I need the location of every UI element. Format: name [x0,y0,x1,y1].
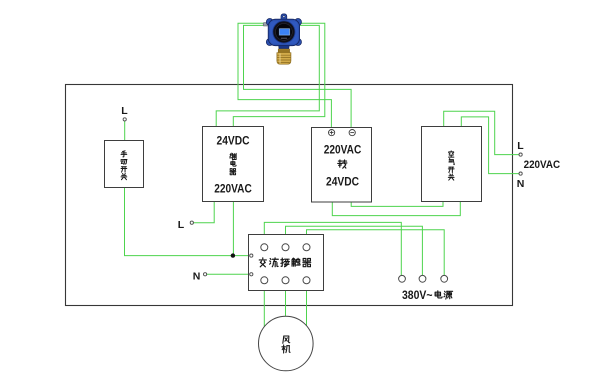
junction dot [231,253,235,257]
380V power terminal 2 [419,275,426,282]
plus terminal [329,130,335,136]
svg-text:24VDC: 24VDC [326,175,359,189]
detector mounting ear [281,14,287,20]
terminal N mid [204,273,207,276]
svg-text:L: L [178,219,185,231]
detector corner bosses [266,19,273,26]
svg-text:L: L [121,105,128,117]
converter box [312,128,372,203]
wire: detector left lower to converter minus terminal [244,25,352,129]
wire: detector left upper to converter plus terminal [238,23,331,129]
wire: air switch top-right to mains N terminal [461,117,519,174]
label 转 [338,160,347,168]
detector neck [279,46,290,49]
wire: converter bottom-left to air switch bottom-right [332,202,460,216]
detector bezel [272,20,295,43]
minus terminal [349,130,355,136]
wire: detector right upper to relay top-right terminal [233,23,324,126]
wire: contactor bottom 3 to fan [306,284,308,326]
detector body [268,19,299,46]
contactor box [249,235,324,291]
svg-text:N: N [193,271,201,283]
svg-text:220VAC: 220VAC [324,142,362,156]
wire: contactor top 3 to 380V terminal 3 [307,230,445,276]
svg-text:220VAC: 220VAC [524,159,561,171]
label 继电器 (rotated) [230,153,236,175]
label 风机 [282,336,290,353]
svg-text:24VDC: 24VDC [217,133,250,147]
wire: relay bottom-left to L terminal [193,202,214,223]
wire: air switch top-left to mains L terminal [444,111,519,154]
wire: contactor top 1 to 380V terminal 1 [264,222,401,275]
terminal L top-left [123,118,126,121]
relay box [203,127,264,202]
label 交流接触器 [259,258,310,267]
contactor top terminals [261,244,268,251]
svg-text:L: L [517,140,524,152]
svg-text:N: N [517,178,525,190]
contactor coil terminal A2 [250,273,253,276]
wire: contactor bottom 2 to fan [285,284,287,317]
wire: L terminal through manual switch to junction [125,121,233,256]
fan circle [259,316,314,371]
manual switch box [105,141,144,188]
detector screen [279,28,290,35]
terminal L mid [190,221,193,224]
label 空气开关 (rotated) [448,151,454,180]
mains terminal L right [519,153,522,156]
detector sensor cylinder [277,53,291,64]
label 手动开关 (rotated) [121,151,127,180]
gas detector device [263,14,301,64]
380V power terminal 1 [399,275,406,282]
mains terminal N right [519,172,522,175]
380V power terminal 3 [441,275,448,282]
detector sensor thread [278,49,289,53]
svg-text:380V~: 380V~ [402,290,433,302]
wire: contactor top 2 to 380V terminal 2 [286,226,423,275]
contactor coil terminal A1 [250,254,253,257]
air switch box [422,127,482,202]
outer enclosure rectangle [66,85,513,306]
detector cable gland [263,23,269,26]
wire: relay bottom-right through junction to contactor coil A1 [233,202,250,256]
wire: detector right lower to relay top-left terminal [216,25,319,126]
wire: N terminal to contactor coil A2 [207,273,250,275]
contactor bottom terminals [261,277,268,284]
svg-text:220VAC: 220VAC [214,182,252,196]
wire: converter bottom-right to air switch bottom-left [351,202,443,207]
wire: contactor bottom 1 to fan [263,284,265,327]
